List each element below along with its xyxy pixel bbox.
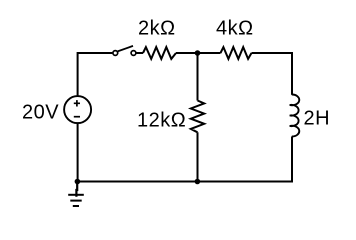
ground stem — [75, 182, 78, 197]
ground bar 1 — [68, 194, 84, 196]
wire top-left from corner to switch — [77, 52, 112, 54]
svg-text:2H: 2H — [304, 108, 331, 130]
svg-text:4kΩ: 4kΩ — [216, 18, 254, 40]
ground bar 3 — [73, 205, 79, 207]
svg-text:12kΩ: 12kΩ — [137, 110, 186, 132]
wire left vertical from corner down to source top — [77, 52, 79, 97]
switch S1 right terminal circle — [131, 51, 136, 56]
switch S1 left terminal circle — [113, 51, 118, 56]
node A junction dot — [195, 50, 201, 56]
bottom-middle junction dot — [195, 179, 201, 185]
wire node A to 4k resistor — [198, 52, 221, 54]
wire from 4k resistor to top-right corner — [252, 52, 293, 54]
resistor R3 12k zigzag — [191, 101, 204, 133]
switch S1 blade — [118, 46, 133, 52]
ground bar 2 — [70, 200, 81, 202]
bottom-left junction dot — [75, 179, 81, 185]
svg-text:20V: 20V — [22, 102, 59, 124]
wire from switch to 2k resistor — [136, 52, 143, 54]
wire from inductor down to bottom-right corner — [291, 137, 293, 183]
wire from 12k resistor down to bottom node — [197, 132, 199, 181]
wire right vertical down to inductor — [291, 52, 293, 95]
wire bottom from left node to right corner — [78, 181, 293, 183]
resistor R2 4k zigzag — [221, 47, 252, 59]
voltage source V1 20V — [64, 96, 91, 123]
inductor L1 2H coil — [290, 94, 300, 136]
resistor R1 2k zigzag — [143, 47, 176, 59]
svg-text:2kΩ: 2kΩ — [138, 18, 176, 40]
wire middle vertical node A down to 12k resistor — [197, 53, 199, 101]
wire from source bottom down to bottom-left node — [77, 123, 79, 182]
wire from 2k resistor to node A — [176, 52, 198, 54]
